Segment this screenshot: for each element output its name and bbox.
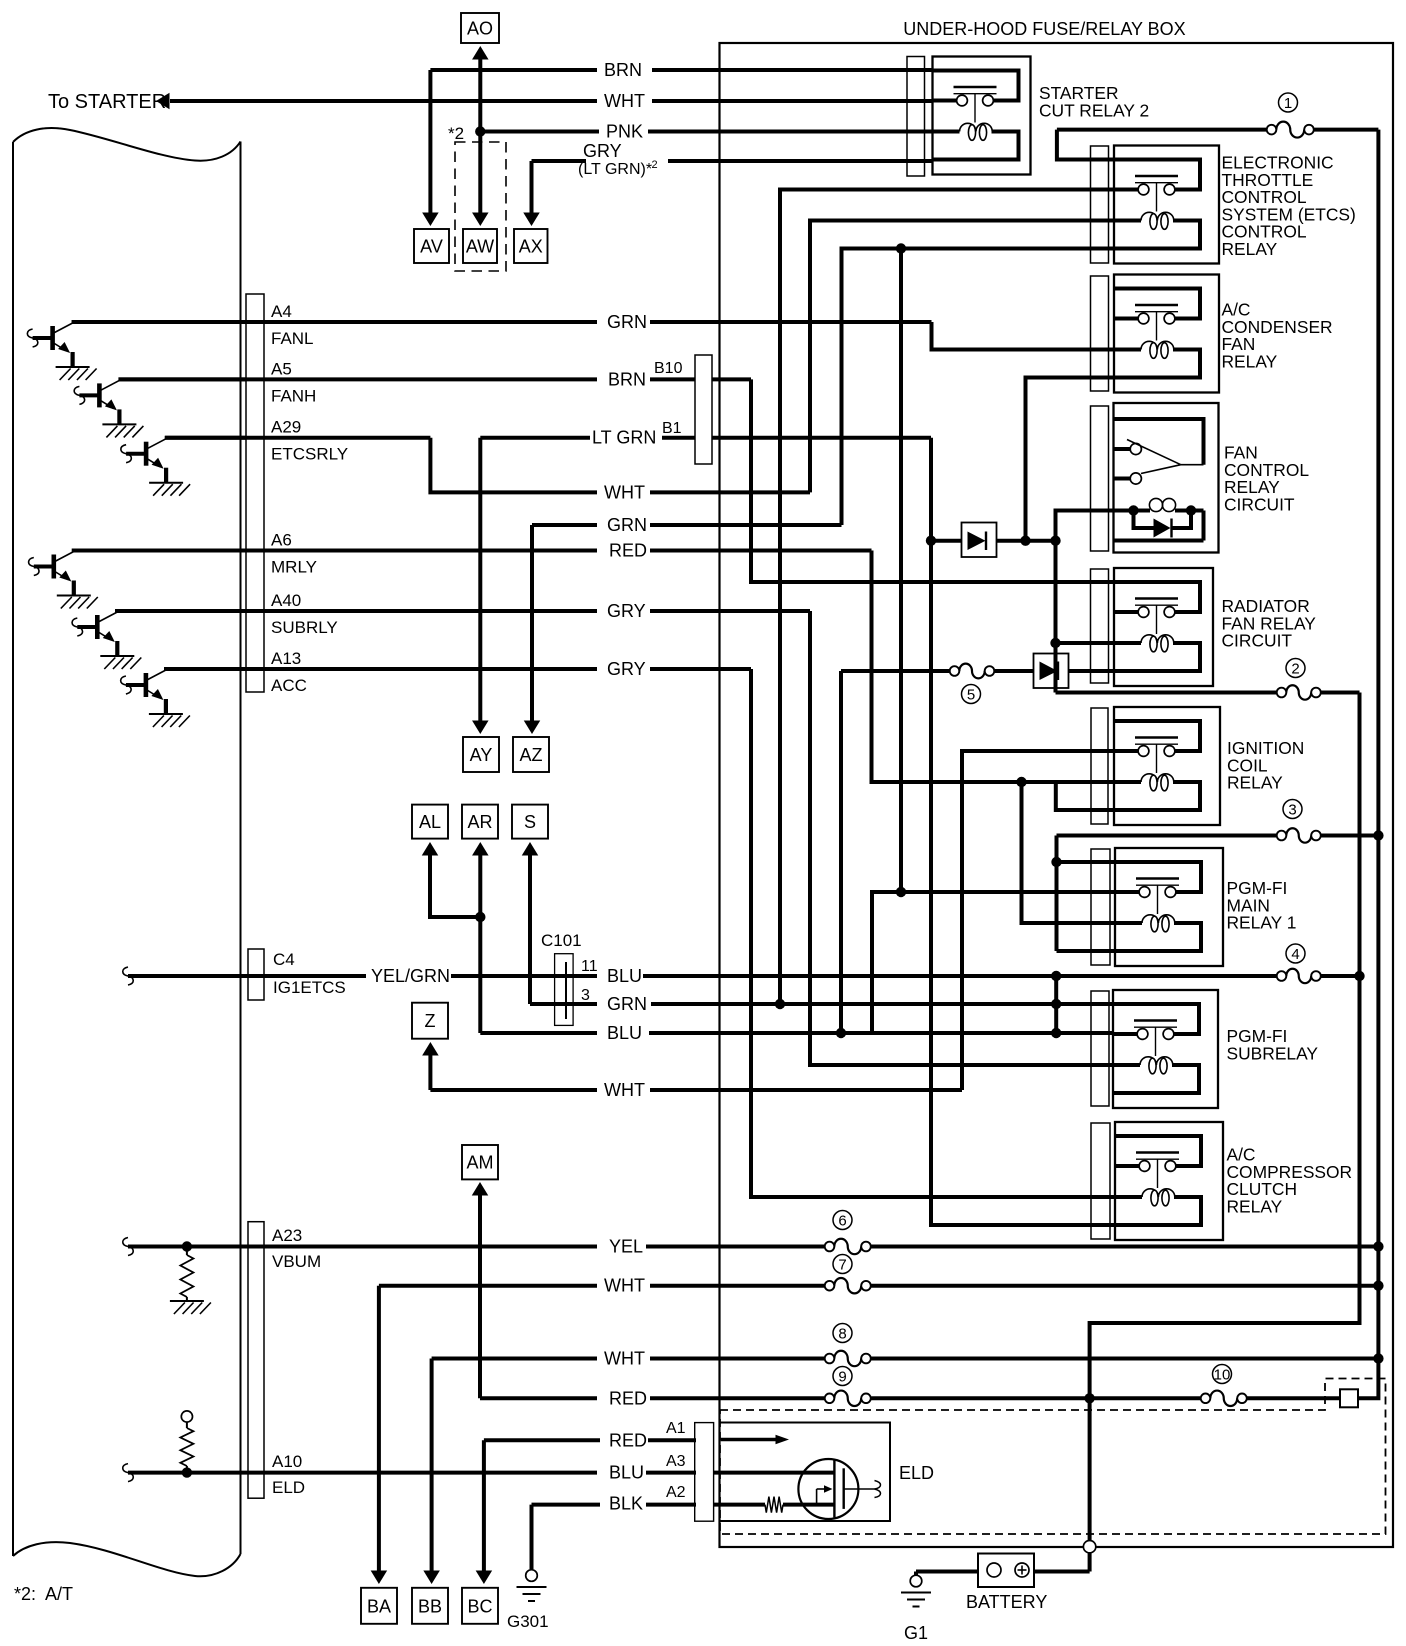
svg-text:GRY: GRY bbox=[583, 141, 622, 161]
svg-text:BLU: BLU bbox=[609, 1463, 644, 1483]
wire GRN (S, C101 pin 3, subrelay line1) bbox=[530, 994, 1114, 1014]
connector AV bbox=[414, 229, 449, 263]
relay: STARTER CUT RELAY 2 bbox=[933, 57, 1150, 175]
connector (PGM-FI main relay 1) bbox=[1091, 849, 1110, 965]
connector AM bbox=[462, 1145, 498, 1179]
connector AL bbox=[412, 805, 448, 839]
wire GRN FANL bbox=[72, 312, 932, 332]
relay: PGM-FI MAIN RELAY 1 bbox=[1115, 848, 1296, 966]
wire/arrow down to AW bbox=[472, 132, 489, 227]
wire/arrow down to AX bbox=[523, 161, 540, 226]
connector B10/B1 bracket bbox=[654, 355, 712, 464]
svg-text:RED: RED bbox=[609, 541, 647, 561]
ground G301 bbox=[507, 1505, 549, 1631]
svg-text:BRN: BRN bbox=[608, 369, 646, 389]
wire WHT To STARTER bbox=[48, 91, 933, 113]
svg-text:RELAY: RELAY bbox=[1222, 239, 1278, 259]
relay: FAN CONTROL RELAY CIRCUIT bbox=[1114, 403, 1310, 553]
svg-text:CUT RELAY 2: CUT RELAY 2 bbox=[1039, 101, 1149, 121]
wire FANL to A/C condenser coil (v930a) bbox=[932, 322, 1115, 350]
transistor Q1 FANL (ECM output driver) bbox=[27, 323, 96, 380]
svg-text:FANL: FANL bbox=[271, 329, 314, 348]
svg-text:AM: AM bbox=[467, 1153, 494, 1173]
connector BC bbox=[462, 1588, 498, 1624]
svg-text:5: 5 bbox=[967, 686, 975, 703]
fuse 4 wire junction (BLU) down to subrelay line1 (V3) bbox=[1051, 971, 1061, 1038]
svg-text:ELD: ELD bbox=[899, 1463, 934, 1483]
svg-text:SUBRLY: SUBRLY bbox=[271, 618, 338, 637]
connector Z bbox=[412, 1003, 448, 1039]
diode D2 bbox=[995, 654, 1114, 689]
connector C101 bbox=[541, 931, 598, 1025]
wire BLK A2 (to ELD via resistor) bbox=[532, 1484, 697, 1513]
wire/arrow up to Z bbox=[422, 1042, 439, 1090]
wire/arrow down to AV bbox=[422, 70, 439, 226]
fuse 5 bbox=[841, 664, 994, 704]
ECM/PCM connector body (torn-edge) bbox=[13, 128, 241, 1576]
wire ign coil relay line2 out (v960) bbox=[962, 751, 1114, 1090]
ELD box bbox=[720, 1423, 935, 1522]
wire/arrow up to AM bbox=[472, 1182, 489, 1398]
relay: A/C CONDENSER FAN RELAY bbox=[1114, 275, 1333, 393]
node radiator coil junction bbox=[1050, 638, 1114, 648]
svg-text:C4: C4 bbox=[273, 950, 295, 969]
svg-text:*2: *2 bbox=[448, 124, 464, 143]
svg-text:LT GRN: LT GRN bbox=[592, 428, 656, 448]
connector S bbox=[512, 805, 548, 839]
svg-text:YEL/GRN: YEL/GRN bbox=[371, 966, 450, 986]
wire PNK bbox=[480, 122, 932, 142]
node v780/GRN junction bbox=[775, 999, 785, 1009]
relay: A/C COMPRESSOR CLUTCH RELAY bbox=[1115, 1122, 1352, 1240]
svg-text:A6: A6 bbox=[271, 531, 292, 550]
connector (PGM-FI subrelay) bbox=[1091, 991, 1109, 1106]
wire GRN up to ETCS line4 (v841a) bbox=[842, 249, 1115, 526]
transistor Q4 MRLY (ECM output driver) bbox=[29, 552, 98, 609]
connector (ignition coil relay) bbox=[1091, 708, 1108, 824]
wire BLU A10/A3 (to ELD) bbox=[123, 1453, 696, 1483]
svg-text:RED: RED bbox=[609, 1430, 647, 1450]
svg-text:RELAY: RELAY bbox=[1227, 1196, 1283, 1216]
connector BB bbox=[412, 1588, 448, 1624]
pin labels A4..A13 bbox=[271, 302, 348, 695]
wire/arrow down to BB bbox=[423, 1359, 440, 1585]
connector AX bbox=[514, 229, 548, 263]
transistor Q6 ACC (ECM output driver) bbox=[121, 670, 190, 727]
node dot C (main line1) bbox=[1051, 857, 1061, 867]
relay: RADIATOR FAN RELAY CIRCUIT bbox=[1114, 568, 1316, 686]
wire GRY (LT GRN)*2 bbox=[532, 141, 933, 178]
BATTERY bbox=[966, 1554, 1047, 1613]
wire/arrow up to AL bbox=[422, 842, 481, 917]
transistor Q3 ETCSRLY (ECM output driver) bbox=[121, 439, 190, 496]
wire GRY ACC down (v752b) to A/C clutch coil bbox=[751, 669, 1115, 1197]
svg-text:AY: AY bbox=[470, 745, 493, 765]
svg-text:WHT: WHT bbox=[604, 1276, 645, 1296]
ELD internal arrow bbox=[721, 1435, 789, 1445]
svg-text:Z: Z bbox=[425, 1011, 436, 1031]
wire A/C condenser line4 down (v1025) bbox=[1026, 378, 1115, 541]
svg-text:A13: A13 bbox=[271, 649, 301, 668]
wire/arrow down to BC bbox=[476, 1440, 493, 1584]
svg-text:RELAY: RELAY bbox=[1222, 351, 1278, 371]
connector (ETCS relay) bbox=[1091, 146, 1109, 263]
node battery feed / RED wire bbox=[1084, 1393, 1094, 1403]
svg-text:GRY: GRY bbox=[607, 659, 646, 679]
svg-text:G1: G1 bbox=[904, 1623, 928, 1643]
ground G1 bbox=[901, 1575, 931, 1643]
svg-text:SUBRELAY: SUBRELAY bbox=[1227, 1043, 1319, 1063]
svg-text:WHT: WHT bbox=[604, 1349, 645, 1369]
wire A/C clutch line4 (v930c) bbox=[931, 541, 1115, 1225]
transistor Q2 FANH (ECM output driver) bbox=[74, 380, 143, 437]
svg-text:AZ: AZ bbox=[519, 745, 542, 765]
fuse 9 bbox=[825, 1367, 871, 1407]
svg-text:11: 11 bbox=[581, 958, 598, 975]
connector AR bbox=[462, 805, 498, 839]
svg-text:AX: AX bbox=[519, 236, 543, 256]
svg-text:2: 2 bbox=[652, 159, 658, 171]
fuse 6 bbox=[825, 1211, 871, 1255]
wire/arrow down to BA bbox=[371, 1286, 388, 1584]
svg-text:B1: B1 bbox=[662, 420, 682, 437]
connector (A/C condenser fan relay) bbox=[1091, 276, 1109, 391]
svg-text:RELAY 1: RELAY 1 bbox=[1227, 913, 1297, 933]
svg-text:CIRCUIT: CIRCUIT bbox=[1224, 494, 1295, 514]
bus B1 (right, from fuse 1) bbox=[1358, 130, 1378, 1399]
ELD MOSFET bbox=[714, 1459, 881, 1519]
wire WHT (BB, fuse 8) bbox=[432, 1349, 1379, 1369]
wire GRY SUBRLY down (v810b) to subrelay line3 bbox=[810, 611, 1113, 1065]
svg-text:A4: A4 bbox=[271, 302, 292, 321]
title UNDER-HOOD FUSE/RELAY BOX bbox=[903, 19, 1185, 39]
svg-text:A40: A40 bbox=[271, 591, 301, 610]
svg-text:S: S bbox=[524, 812, 536, 832]
fuse 8 bbox=[825, 1324, 871, 1367]
wire battery feed through box edge bbox=[1034, 1398, 1096, 1571]
fuse 2 bbox=[1056, 659, 1360, 700]
resistor + chassis ground on YEL bbox=[170, 1241, 211, 1314]
connector (radiator fan relay circuit) bbox=[1091, 569, 1109, 683]
wire LT GRN ETCSRLY B1 bbox=[165, 428, 931, 448]
under-hood fuse/relay box border bbox=[720, 43, 1394, 1547]
svg-text:3: 3 bbox=[1288, 801, 1296, 818]
connector C4 bracket bbox=[248, 949, 346, 1000]
connector (A/C compressor clutch relay) bbox=[1091, 1123, 1110, 1239]
svg-text:AL: AL bbox=[419, 812, 441, 832]
node ETCS line4 junction + trunk v901 bbox=[896, 243, 906, 892]
svg-text:MRLY: MRLY bbox=[271, 558, 317, 577]
connector AY bbox=[463, 737, 499, 772]
nodes on diode D1 wire bbox=[926, 536, 1061, 546]
svg-text:RELAY: RELAY bbox=[1227, 773, 1283, 793]
wire/arrow down to AZ bbox=[524, 525, 541, 734]
ELD connector bracket A1/A3/A2 bbox=[695, 1423, 714, 1522]
svg-text:CIRCUIT: CIRCUIT bbox=[1222, 631, 1293, 651]
fuse 1 bbox=[1057, 93, 1379, 138]
wire dotA down to PGM-FI main line3 (v1022) bbox=[1022, 782, 1116, 923]
wire RED MRLY down (v872a) to ign coil relay line3 bbox=[872, 551, 1115, 783]
svg-text:WHT: WHT bbox=[604, 91, 645, 111]
wire GRY ACC bbox=[164, 659, 751, 679]
svg-text:3: 3 bbox=[581, 987, 590, 1004]
svg-text:AO: AO bbox=[467, 18, 493, 38]
transistor Q5 SUBRLY (ECM output driver) bbox=[72, 612, 141, 669]
wire WHT (ETCS coil feed) bbox=[430, 438, 810, 503]
svg-text:A2: A2 bbox=[666, 1484, 686, 1501]
node AL/AR junction bbox=[475, 912, 485, 922]
svg-text:BA: BA bbox=[367, 1596, 391, 1616]
svg-text:AW: AW bbox=[466, 236, 494, 256]
svg-text:6: 6 bbox=[838, 1212, 846, 1229]
svg-text:GRN: GRN bbox=[607, 312, 647, 332]
svg-text:BLU: BLU bbox=[607, 1023, 642, 1043]
node W782 junction (dot A) bbox=[1016, 777, 1026, 787]
wire RED A1 (to ELD) bbox=[484, 1420, 696, 1450]
connector square (fusible link) bbox=[1340, 1389, 1358, 1407]
note *2: A/T bbox=[14, 1584, 73, 1604]
nodes on bus B1 bbox=[1373, 830, 1383, 1363]
wire GRY SUBRLY bbox=[115, 601, 810, 621]
wire BRN trunk down (v752a) + radiator line1 feed bbox=[751, 379, 1114, 582]
wire fuse3 down to PGM-FI main line1/line4 (v1056b) bbox=[1057, 836, 1116, 952]
svg-text:BATTERY: BATTERY bbox=[966, 1592, 1047, 1612]
svg-text:BC: BC bbox=[467, 1596, 492, 1616]
relay: IGNITION COIL RELAY bbox=[1114, 707, 1304, 825]
wire/arrow down to AY bbox=[472, 438, 489, 734]
wire battery to G1 bbox=[916, 1572, 978, 1576]
wire/arrow up to AO bbox=[472, 46, 489, 132]
wire YEL/GRN - BLU (IG1ETCS, C101 pin 11, fuse 4) bbox=[123, 966, 1360, 986]
svg-text:AR: AR bbox=[467, 812, 492, 832]
svg-text:G301: G301 bbox=[507, 1612, 549, 1631]
fuse 4 bbox=[1277, 944, 1321, 983]
svg-text:9: 9 bbox=[838, 1368, 846, 1385]
connector AW bbox=[463, 229, 497, 263]
svg-text:IG1ETCS: IG1ETCS bbox=[273, 978, 346, 997]
wire WHT up to ETCS line3 (v810a) bbox=[810, 221, 1114, 493]
relay: PGM-FI SUBRELAY bbox=[1113, 990, 1318, 1108]
fuse 3 bbox=[1057, 800, 1379, 843]
svg-text:RED: RED bbox=[609, 1388, 647, 1408]
svg-text:WHT: WHT bbox=[604, 1080, 645, 1100]
wire fuse5 trunk down (v841b) bbox=[836, 671, 846, 1038]
svg-text:A10: A10 bbox=[272, 1452, 302, 1471]
svg-text:*2: A/T: *2: A/T bbox=[14, 1584, 73, 1604]
svg-text:UNDER-HOOD FUSE/RELAY BOX: UNDER-HOOD FUSE/RELAY BOX bbox=[903, 19, 1185, 39]
svg-text:BRN: BRN bbox=[604, 60, 642, 80]
svg-text:A3: A3 bbox=[666, 1453, 686, 1470]
connector BA bbox=[361, 1588, 397, 1624]
wire RED MRLY bbox=[72, 541, 872, 561]
svg-text:A5: A5 bbox=[271, 359, 292, 378]
svg-text:FANH: FANH bbox=[271, 386, 316, 405]
wire fuse1 to ETCS line1 bbox=[1057, 130, 1114, 160]
svg-text:VBUM: VBUM bbox=[272, 1252, 321, 1271]
wire YEL VBUM (fuse 6) bbox=[123, 1237, 1379, 1257]
wire PGM-FI main line2 (v872b) bbox=[872, 892, 1115, 1033]
svg-text:BLK: BLK bbox=[609, 1493, 643, 1513]
connector AO bbox=[461, 13, 499, 43]
svg-text:To STARTER: To STARTER bbox=[48, 91, 166, 113]
wire ign line4 feed (v1055b) bbox=[1056, 782, 1114, 810]
svg-text:WHT: WHT bbox=[604, 482, 645, 502]
svg-text:GRN: GRN bbox=[607, 994, 647, 1014]
connector (fan control relay circuit) bbox=[1091, 406, 1109, 551]
svg-text:ELD: ELD bbox=[272, 1478, 305, 1497]
svg-text:4: 4 bbox=[1291, 946, 1299, 963]
svg-text:A1: A1 bbox=[666, 1420, 686, 1437]
svg-text:B10: B10 bbox=[654, 360, 683, 377]
dashed ELD enclosure bbox=[720, 1379, 1386, 1535]
wire BRN FANH B10 bbox=[119, 369, 751, 389]
wire WHT (Z, ign coil relay out) bbox=[430, 1080, 962, 1100]
diode D1 bbox=[931, 523, 1056, 558]
connector bracket A4-A13 bbox=[246, 294, 264, 692]
node dot B bbox=[896, 887, 906, 897]
svg-text:BB: BB bbox=[418, 1596, 442, 1616]
wire WHT (BA, fuse 7) bbox=[379, 1276, 1379, 1296]
wire/arrow up to AR bbox=[472, 842, 489, 1033]
wire ETCS line2 to trunk v780 bbox=[780, 190, 1114, 1005]
svg-text:10: 10 bbox=[1214, 1366, 1231, 1383]
resistor + pull-up circle on BLU bbox=[180, 1411, 193, 1478]
svg-text:7: 7 bbox=[838, 1256, 846, 1273]
connector AZ bbox=[513, 737, 549, 772]
wire fan-control coil / radiator coil feed trunk (v1055a) bbox=[1056, 511, 1114, 693]
svg-text:AV: AV bbox=[420, 236, 443, 256]
node fuse4/bus B2 bbox=[1354, 971, 1364, 981]
svg-text:(LT GRN)*: (LT GRN)* bbox=[578, 161, 652, 178]
fuse 10 bbox=[1201, 1365, 1247, 1406]
wire BRN (starter cut relay 2 pin1) bbox=[430, 60, 932, 80]
svg-text:GRY: GRY bbox=[607, 601, 646, 621]
wire/arrow up to S bbox=[522, 842, 539, 1004]
pin labels A23 VBUM / A10 ELD bbox=[272, 1226, 321, 1497]
svg-text:BLU: BLU bbox=[607, 966, 642, 986]
svg-text:C101: C101 bbox=[541, 931, 582, 950]
connector bracket A23/A10 bbox=[248, 1222, 264, 1499]
svg-text:A29: A29 bbox=[271, 418, 301, 437]
svg-text:8: 8 bbox=[838, 1325, 846, 1342]
fuse 7 bbox=[825, 1255, 871, 1294]
svg-text:GRN: GRN bbox=[607, 515, 647, 535]
node PNK junction bbox=[448, 124, 485, 143]
ELD series resistor on BLK/A2 bbox=[714, 1497, 834, 1513]
dashed A/T alternate box around AW bbox=[455, 142, 506, 271]
wire RED (AM, fuse 9, fuse 10) bbox=[480, 1388, 1340, 1408]
svg-text:PNK: PNK bbox=[606, 122, 643, 142]
wire GRN (AZ) bbox=[532, 515, 842, 535]
svg-text:ETCSRLY: ETCSRLY bbox=[271, 445, 348, 464]
bus B2 (from fuse 2) bbox=[1090, 693, 1360, 1399]
wire LT GRN down (v930b) bbox=[929, 438, 933, 541]
relay: ETCS CONTROL RELAY bbox=[1114, 146, 1356, 264]
svg-text:1: 1 bbox=[1284, 95, 1292, 112]
connector (starter cut relay 2) bbox=[907, 57, 925, 177]
wire BLU (AR, subrelay line2) bbox=[480, 1023, 1114, 1043]
svg-text:YEL: YEL bbox=[609, 1237, 643, 1257]
svg-text:2: 2 bbox=[1291, 660, 1299, 677]
wire ECM pin stubs bbox=[72, 322, 246, 669]
svg-text:A23: A23 bbox=[272, 1226, 302, 1245]
svg-text:ACC: ACC bbox=[271, 676, 307, 695]
